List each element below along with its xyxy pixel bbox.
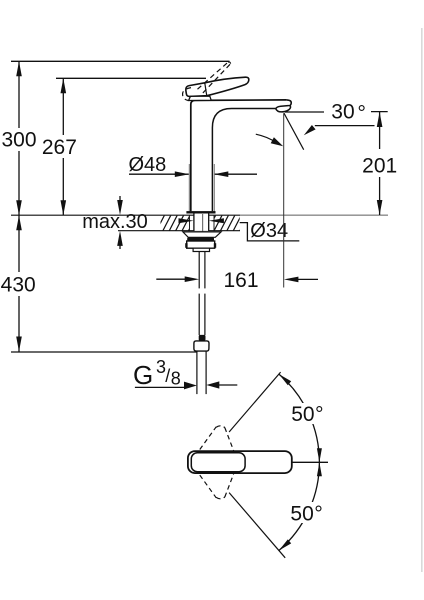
extension line top (300) — [11, 60, 230, 62]
counter hole edges — [189, 216, 191, 231]
spout tip curve — [287, 100, 291, 106]
dashed lever raised position — [183, 62, 231, 101]
label 50 deg lower — [290, 502, 332, 526]
extension line (267) — [56, 77, 206, 79]
dimension 201 — [379, 112, 381, 215]
label 50 deg upper — [291, 402, 333, 426]
top view dashed handle down — [200, 474, 234, 499]
washer cone — [183, 232, 221, 237]
supply pipe — [196, 351, 198, 394]
svg-text:max.30: max.30 — [82, 211, 148, 233]
countertop bottom line — [118, 230, 240, 232]
G3/8 right arrow — [218, 384, 237, 386]
svg-text:8: 8 — [171, 369, 181, 389]
handle escutcheon — [189, 96, 212, 100]
mounting nut — [187, 241, 215, 248]
right page border — [421, 28, 423, 572]
faucet outer contour — [191, 100, 287, 211]
swivel arc arrow — [256, 134, 276, 142]
svg-text:Ø34: Ø34 — [250, 220, 288, 242]
dimension 300 — [18, 61, 20, 215]
svg-text:/: / — [165, 366, 170, 386]
lower 50 deg arc — [279, 462, 320, 550]
center axis line — [202, 214, 204, 251]
dimension 267 — [62, 78, 64, 215]
svg-text:201: 201 — [362, 154, 397, 177]
svg-text:50°: 50° — [290, 502, 322, 526]
datum line countertop surface — [11, 214, 240, 216]
pull rod upper — [198, 252, 200, 289]
base flange — [186, 211, 215, 213]
svg-text:267: 267 — [42, 136, 77, 159]
svg-text:161: 161 — [223, 269, 258, 292]
aerator — [276, 106, 291, 112]
top view dashed handle up — [200, 426, 234, 451]
upper 50 deg arc — [279, 374, 320, 462]
30 deg leader with arrow — [315, 125, 375, 127]
top view: solid handle — [188, 451, 292, 473]
collar — [193, 248, 209, 251]
water stream line — [284, 113, 304, 150]
svg-text:50°: 50° — [291, 402, 323, 426]
svg-text:30°: 30° — [331, 101, 366, 125]
spout tip extension line — [283, 114, 285, 288]
upper 50 deg ray — [229, 372, 281, 432]
lower 50 deg ray — [229, 493, 285, 558]
o-ring band — [187, 238, 214, 242]
dimension 161 — [156, 278, 186, 280]
top view center line — [292, 461, 328, 463]
connector nut G3/8 — [194, 341, 209, 351]
handle lever (solid) — [186, 77, 249, 96]
svg-text:430: 430 — [1, 274, 36, 297]
svg-text:G: G — [133, 360, 153, 390]
rod end cap — [199, 335, 206, 341]
Ø48 extension lines — [188, 164, 190, 214]
pull rod lower — [198, 294, 200, 335]
shank arrows (Ø34 pointers) — [179, 218, 194, 223]
label Ø34 with leader — [240, 223, 300, 241]
extension line bottom (430) — [11, 351, 197, 353]
svg-text:300: 300 — [1, 129, 36, 152]
shank through counter — [194, 214, 208, 231]
dimension 430 — [18, 215, 20, 351]
faucet inner contour (spout underside) — [212, 109, 276, 212]
svg-text:Ø48: Ø48 — [129, 154, 167, 176]
